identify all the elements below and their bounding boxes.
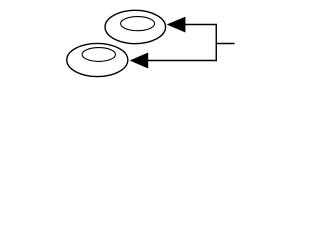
wire bottom horizontal: [148, 60, 217, 62]
arrowhead into reel B: [130, 53, 149, 69]
tape reel A inner ellipse: [121, 17, 155, 31]
arrowhead into reel A: [167, 17, 186, 33]
tape reel A (top torus) outer ellipse: [105, 10, 166, 43]
wire top horizontal: [185, 24, 216, 26]
tape reel B (bottom-left torus) outer ellipse: [67, 43, 128, 76]
tape reel B inner ellipse: [82, 48, 115, 62]
wire input stub: [216, 43, 235, 45]
wire right vertical: [215, 24, 217, 62]
